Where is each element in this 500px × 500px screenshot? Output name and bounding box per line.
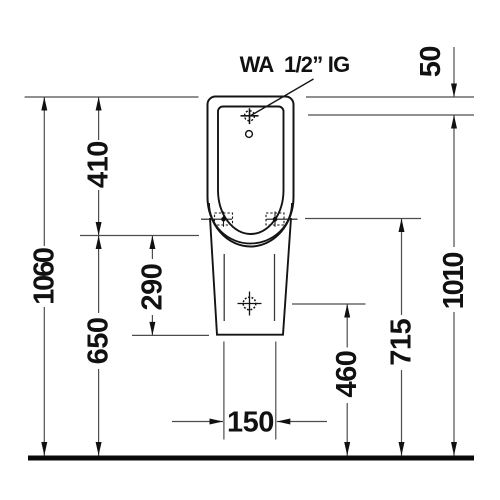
small circle below water connection xyxy=(246,131,253,138)
svg-text:715: 715 xyxy=(386,318,418,365)
urinal lower body (siphon cover) xyxy=(210,218,291,335)
svg-text:290: 290 xyxy=(136,264,168,311)
wire: extension line 715 level xyxy=(305,218,421,220)
dimension 150 line left xyxy=(172,421,223,423)
urinal inner line right of siphon cover xyxy=(274,254,276,321)
wire: extension line 1010 level right xyxy=(308,114,474,116)
fixing hole left xyxy=(201,212,233,227)
wire: top extension line right (1060 level) xyxy=(306,96,474,98)
water connection crosshair WA xyxy=(241,108,259,124)
urinal inner basin contour xyxy=(218,107,284,235)
svg-text:1010: 1010 xyxy=(438,253,470,310)
wire: extension line rim level (410/650 boundary) xyxy=(80,235,199,237)
svg-text:650: 650 xyxy=(83,317,115,364)
dimension 50 line xyxy=(453,47,455,97)
urinal outer contour xyxy=(208,97,294,247)
dimension 650 line xyxy=(98,236,100,314)
outlet crosshair xyxy=(238,292,262,316)
wire: extension line 150 right xyxy=(275,342,277,440)
svg-text:50: 50 xyxy=(415,46,447,77)
wire: extension line 150 left xyxy=(223,342,225,440)
svg-text:1060: 1060 xyxy=(28,248,60,305)
dimension 150 line right xyxy=(277,421,327,423)
svg-text:460: 460 xyxy=(331,351,363,398)
wire: leader line to water connection xyxy=(250,79,314,116)
dimension 715 line xyxy=(401,219,403,316)
wire: top extension line left (1060 level) xyxy=(25,96,199,98)
dimension 290 line xyxy=(151,236,153,260)
ground line xyxy=(28,456,474,461)
dimension 460 line xyxy=(346,304,348,348)
urinal rim second arc (double line) xyxy=(209,203,292,244)
wire: extension line 290 bottom level xyxy=(132,334,209,336)
svg-text:WA 1/2” IG: WA 1/2” IG xyxy=(240,52,350,77)
dimension 1010 line xyxy=(453,115,455,247)
dimension 1060 line xyxy=(43,97,45,246)
svg-text:150: 150 xyxy=(227,407,274,439)
dimension 410 line xyxy=(98,97,100,140)
fixing hole right xyxy=(266,212,298,227)
urinal inner line left of siphon cover xyxy=(223,254,225,321)
wire: extension line 460 level xyxy=(292,303,366,305)
svg-text:410: 410 xyxy=(83,141,115,188)
